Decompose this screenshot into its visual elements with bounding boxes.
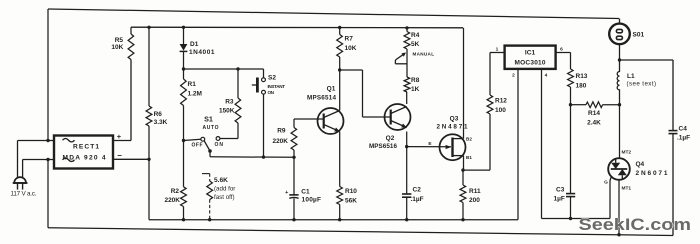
svg-text:R7: R7 (345, 36, 354, 43)
svg-text:ON: ON (268, 90, 275, 95)
resistor R2 220K (183, 141, 185, 187)
wire Q4 MT1 to bottom border (618, 180, 620, 235)
capacitor C2 .1uF (406, 147, 408, 194)
svg-text:L1: L1 (627, 73, 635, 80)
svg-text:180: 180 (576, 83, 587, 90)
socket S01 (609, 24, 630, 45)
wire left border upper segment (47, 9, 49, 141)
wire junction to C4 (right side) (620, 59, 674, 61)
node S2 / pole wire junction (262, 155, 265, 158)
switch S2 INSTANT ON (263, 69, 265, 78)
node top rail / R6 (147, 26, 150, 29)
svg-text:R5: R5 (115, 37, 124, 44)
svg-text:100: 100 (495, 107, 506, 114)
node MT1 / bottom border (617, 233, 620, 236)
svg-text:ON: ON (214, 142, 223, 148)
svg-text:R14: R14 (588, 110, 600, 117)
node R14 / L1 column (618, 103, 621, 106)
transistor Q2 MPS6516 (385, 104, 411, 130)
node R2 bottom / rail (182, 218, 185, 221)
node top rail / R7 (338, 26, 341, 29)
node R3 top junction (236, 67, 239, 70)
svg-text:C4: C4 (679, 125, 688, 132)
svg-text:MANUAL: MANUAL (413, 51, 435, 56)
svg-text:MT2: MT2 (622, 149, 632, 155)
node S1 pole (208, 149, 212, 153)
wire Q2 emitter down (406, 132, 408, 147)
switch S1 lever (204, 141, 210, 151)
svg-text:R9: R9 (277, 127, 286, 134)
svg-text:R6: R6 (154, 111, 163, 118)
svg-text:(see text): (see text) (627, 80, 657, 87)
svg-text:R11: R11 (469, 188, 481, 195)
svg-text:1: 1 (496, 46, 499, 52)
capacitor C3 1uF (570, 105, 572, 194)
wire S01 to junction (619, 44, 621, 60)
svg-text:.1µF: .1µF (677, 135, 690, 142)
svg-text:10K: 10K (345, 45, 357, 52)
node R13 / R14 / C3 (569, 103, 572, 106)
wire R9 to Q1 base (294, 118, 324, 120)
resistor R9 220K (293, 119, 295, 128)
resistor R5 10K (130, 27, 132, 34)
wire B1 down to node (463, 156, 465, 171)
wire D1 node to S2 (y=69) (184, 68, 264, 70)
svg-text:B2: B2 (466, 136, 472, 141)
node B1 / R11 / R12 link (461, 168, 464, 171)
svg-text:Q1: Q1 (327, 86, 336, 93)
node - output / R6 junction (147, 158, 150, 161)
potentiometer R4 5K MANUAL (406, 28, 408, 32)
svg-text:D1: D1 (190, 41, 199, 48)
wire R7 node to Q2 base (step) (340, 69, 363, 71)
node R9 / pole wire (292, 156, 295, 159)
wire bottom border (AC line 2) (48, 228, 673, 236)
node Q2 emitter / Q3 E / C2 (405, 145, 408, 148)
svg-text:Q3: Q3 (450, 116, 459, 123)
wire B2 to top rail (463, 28, 465, 139)
node S01 / C4 branch / L1 (618, 58, 621, 61)
wire B1 node right to R12 column (463, 169, 490, 171)
svg-text:R1: R1 (188, 81, 197, 88)
svg-text:OFF: OFF (192, 142, 203, 148)
resistor R13 180 (570, 53, 572, 70)
wire - output to R6 column (113, 158, 149, 160)
svg-text:200: 200 (469, 197, 480, 204)
svg-text:MT1: MT1 (622, 185, 632, 191)
svg-text:C2: C2 (413, 187, 422, 194)
svg-text:150K: 150K (219, 108, 235, 115)
node R10 / rail (338, 218, 341, 221)
svg-text:.1µF: .1µF (411, 196, 424, 203)
op-amp IC1 MOC3010 box (505, 46, 556, 69)
svg-text:AUTO: AUTO (203, 125, 219, 131)
resistor R10 56K (339, 132, 341, 187)
svg-text:R2: R2 (171, 188, 180, 195)
wire node to S1 OFF contact (184, 139, 201, 140)
node top rail / D1 (182, 26, 185, 29)
svg-text:C3: C3 (556, 187, 565, 194)
triac Q4 2N6071 (608, 158, 630, 180)
svg-text:+: + (285, 190, 288, 196)
svg-text:R8: R8 (411, 77, 420, 84)
node 5.6K / rail (208, 218, 211, 221)
AC plug P1 (14, 177, 26, 183)
svg-text:INSTANT: INSTANT (268, 84, 286, 89)
svg-text:1N4001: 1N4001 (189, 49, 215, 56)
svg-text:R3: R3 (225, 99, 234, 106)
svg-text:Q2: Q2 (386, 135, 395, 142)
svg-text:220K: 220K (164, 197, 180, 204)
svg-text:+: + (117, 132, 122, 141)
svg-text:C1: C1 (301, 188, 310, 195)
svg-text:2: 2 (512, 73, 515, 79)
svg-text:R4: R4 (411, 32, 420, 39)
svg-text:56K: 56K (345, 197, 357, 204)
svg-text:220K: 220K (272, 138, 288, 145)
svg-text:MPS6516: MPS6516 (369, 143, 397, 150)
svg-text:(add for: (add for (214, 186, 235, 193)
node R11 / rail (461, 218, 464, 221)
wire S1 ON contact to R3 bottom (220, 138, 238, 140)
wire left border lower segment (47, 160, 49, 228)
resistor R8 1K (404, 77, 410, 92)
wire + output to R5 (113, 140, 131, 142)
svg-text:S1: S1 (204, 115, 213, 124)
svg-text:5K: 5K (411, 41, 420, 48)
svg-text:R10: R10 (345, 188, 357, 195)
svg-text:fast off): fast off) (214, 194, 235, 201)
wire L1 to Q4 MT2 (619, 105, 621, 159)
svg-text:5.6K: 5.6K (214, 177, 228, 184)
wire pin4 to gate line (542, 218, 611, 220)
wire E to Q3 (407, 146, 451, 148)
wire IC1 pin 1 (490, 52, 505, 54)
svg-text:117 V a.c.: 117 V a.c. (11, 190, 37, 197)
svg-text:6: 6 (560, 46, 563, 52)
svg-text:1.2M: 1.2M (188, 90, 202, 97)
resistor R7 10K (339, 28, 341, 35)
svg-text:4: 4 (545, 73, 548, 79)
node C1 / rail (292, 218, 295, 221)
wire Q4 gate (610, 177, 611, 181)
node junction left border / lower ~ (46, 158, 49, 161)
svg-text:1µF: 1µF (554, 196, 565, 203)
transistor Q1 MPS6514 (318, 108, 344, 134)
node R1/R2/S1-OFF junction (182, 139, 185, 142)
svg-text:R13: R13 (576, 73, 588, 80)
wire bottom DC rail (149, 219, 518, 221)
wire IC1 pin 4 (541, 69, 543, 219)
wire S1 pole down/right to R9 (209, 151, 211, 157)
rectifier RECT1 MDA 920 4 (54, 136, 113, 169)
resistor R6 3.3K (148, 27, 150, 106)
wire IC1 pin 2 (517, 69, 519, 220)
svg-text:3.3K: 3.3K (154, 119, 168, 126)
inductor L1 (see text) (617, 60, 619, 105)
diode D1 1N4001 (183, 27, 185, 44)
svg-text:Q4: Q4 (636, 161, 645, 168)
svg-text:RECT1: RECT1 (73, 143, 99, 150)
svg-text:R12: R12 (495, 98, 507, 105)
capacitor C4 .1uF (669, 130, 678, 132)
svg-text:100µF: 100µF (302, 196, 322, 203)
node top rail / R4 (405, 26, 408, 29)
svg-text:IC1: IC1 (525, 49, 536, 56)
wire plug left lead to upper ~ line (17, 141, 19, 178)
capacitor C1 100uF polarized (289, 194, 298, 196)
svg-text:S2: S2 (268, 74, 276, 81)
wire top DC rail (131, 26, 463, 29)
label ~ upper input (63, 139, 75, 142)
svg-text:G: G (604, 179, 608, 185)
resistor R1 1.2M (183, 69, 185, 79)
label ~ lower input (63, 158, 75, 161)
svg-text:S01: S01 (633, 31, 645, 38)
node D1 / R1 / wire junction (182, 67, 185, 70)
svg-text:2.4K: 2.4K (587, 119, 601, 126)
wire top border (AC line 1) (48, 9, 619, 19)
node R7 / Q2 base branch (338, 68, 341, 71)
resistor R14 2.4K (571, 104, 587, 106)
wire top border to S01 (619, 19, 621, 24)
wire plug right lead to lower ~ line (22, 160, 24, 178)
svg-text:MOC3010: MOC3010 (515, 60, 546, 67)
resistor 5.6K dashed (add for fast off) (202, 173, 210, 175)
transistor Q3 2N4871 (UJT) (440, 134, 466, 160)
node C2 / rail (405, 218, 408, 221)
node junction left border / upper ~ (46, 139, 49, 142)
node C3 / gate line (569, 217, 572, 220)
resistor R3 150K (237, 69, 239, 98)
svg-text:SeekIC.com: SeekIC.com (579, 215, 692, 234)
svg-text:MPS6514: MPS6514 (307, 94, 336, 101)
svg-text:1K: 1K (411, 86, 420, 93)
resistor R12 100 (487, 95, 493, 114)
svg-text:B1: B1 (466, 155, 472, 160)
svg-text:10K: 10K (111, 44, 123, 51)
resistor R11 200 (462, 170, 464, 185)
wire IC1 pin 6 (556, 52, 571, 54)
